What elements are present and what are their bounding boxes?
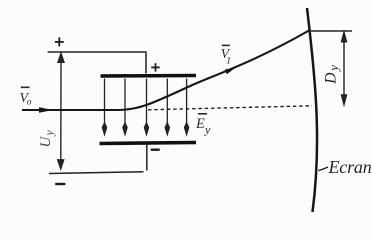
wire top: from + terminal to top plate	[48, 52, 146, 74]
plus sign at source top	[55, 37, 64, 46]
electric field arrows E_y between plates	[102, 79, 188, 135]
label V1 with overbar	[221, 45, 231, 66]
label E_y with overbar	[195, 114, 211, 137]
label V0 with overbar	[20, 87, 32, 107]
dimension arrow D_y (double-headed vertical)	[342, 32, 347, 104]
svg-text:y: y	[204, 123, 211, 137]
label U_y (rotated)	[38, 130, 56, 148]
svg-text:Ecran: Ecran	[328, 157, 372, 177]
wire bottom: from - terminal to bottom plate	[49, 144, 147, 174]
dashed axis line	[148, 106, 312, 110]
minus sign at source bottom	[55, 183, 65, 185]
svg-text:D: D	[323, 73, 340, 85]
beam arrowhead v0	[39, 107, 53, 112]
svg-text:U: U	[38, 136, 54, 148]
svg-text:y: y	[326, 65, 341, 73]
beam arrowhead v1	[225, 68, 236, 75]
tick from screen to Ecran label	[318, 167, 328, 171]
top deflection plate	[101, 74, 197, 78]
label D_y (rotated)	[323, 65, 342, 85]
bottom deflection plate	[100, 143, 197, 144]
minus sign at bottom plate	[151, 148, 160, 150]
electron beam trajectory	[22, 31, 309, 111]
dimension top line at beam spot	[309, 30, 352, 32]
voltage dimension arrow U_y (double-headed vertical)	[58, 53, 64, 169]
screen arc	[307, 8, 317, 212]
svg-text:y: y	[42, 130, 56, 137]
svg-text:1: 1	[226, 57, 231, 67]
plus sign at top plate	[151, 63, 160, 71]
svg-text:o: o	[27, 98, 32, 108]
svg-text:E: E	[195, 116, 205, 132]
